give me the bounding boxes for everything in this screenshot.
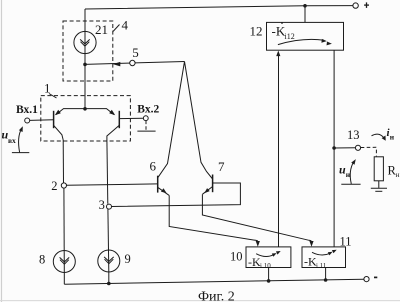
wire source 9 to bottom rail	[108, 272, 110, 284]
wire: triangle left leg (to collector Q6)	[158, 62, 185, 178]
wire: VT2 base to Bx.2	[119, 117, 143, 119]
node 3 terminal circle	[107, 204, 112, 209]
node: diff pair common emitter junction	[83, 107, 87, 111]
block 10 box	[246, 247, 291, 268]
transistor VT1 (left PNP of pair): emitter from common node	[56, 109, 85, 115]
node 2 terminal circle	[61, 183, 66, 188]
arrow into block 11	[309, 241, 313, 247]
wire: triangle right leg (to collector Q7)	[185, 62, 213, 180]
svg-text:2: 2	[51, 179, 57, 193]
u_vx reference bar	[12, 152, 29, 154]
tick for label 1	[49, 94, 57, 99]
svg-text:вх: вх	[8, 136, 16, 145]
label +	[364, 4, 369, 6]
svg-text:7: 7	[218, 159, 225, 174]
u_vx curved arrow	[19, 129, 22, 153]
svg-text:21: 21	[95, 22, 108, 37]
current source 21 circle	[74, 31, 96, 53]
svg-text:н: н	[390, 133, 395, 142]
svg-text:Вх.1: Вх.1	[16, 104, 38, 116]
wire: top supply rail (+)	[85, 6, 353, 9]
svg-text:8: 8	[39, 253, 45, 267]
wire resistor to ground	[378, 181, 380, 188]
transistor VT2 collector	[107, 125, 119, 140]
ground bar under R_n	[371, 187, 387, 189]
svg-text:i 10: i 10	[260, 262, 271, 270]
dashed box around current source 21 (element 4)	[63, 21, 113, 81]
wire node 3 down to source 9	[107, 209, 110, 272]
svg-text:Фиг. 2: Фиг. 2	[198, 290, 235, 302]
emitter arrow into base bar (PNP)	[55, 110, 61, 115]
current source 9 circle	[98, 250, 120, 272]
tick for label 4	[113, 25, 120, 32]
wire: node 5 horizontal with left arrowhead	[85, 63, 130, 64]
wire: VT1 collector down to node 2	[62, 140, 64, 183]
wire: node 2 to base of Q6	[66, 184, 157, 185]
svg-text:13: 13	[347, 128, 360, 142]
wire: node 5 terminal to triangle apex	[135, 62, 184, 63]
transistor Q6 base bar	[157, 176, 159, 193]
transistor VT1 collector	[54, 125, 64, 140]
wire: block 12 output down through node 13 to block 11	[333, 50, 335, 247]
wire: block 10 output up to block 12 input (arrow up)	[278, 56, 280, 247]
dashed box 1 around differential pair	[41, 96, 131, 141]
block 10 curved arrow	[256, 254, 273, 257]
wire: VT2 collector down to node 3	[106, 140, 109, 204]
svg-text:5: 5	[132, 45, 139, 60]
wire node 13 to output terminal	[334, 147, 355, 149]
transistor VT2 (right PNP of pair): emitter from common node	[85, 109, 114, 115]
wire block 11 bottom to rail	[325, 268, 327, 281]
wire block 10 bottom to rail	[268, 268, 270, 281]
terminal circle minus	[364, 277, 369, 282]
svg-text:10: 10	[230, 250, 243, 264]
terminal Bx.2	[143, 116, 148, 121]
block 11 box	[302, 247, 346, 268]
arrowhead pointing left on node 5 wire	[113, 62, 121, 67]
scan border left edge	[1, 0, 3, 302]
node dot block 11 on rail	[324, 278, 328, 282]
arrow into block 10	[256, 241, 260, 247]
wire: Q6 emitter down then slope to block 10 input	[169, 195, 258, 241]
wire: vertical from top rail through current source 21 to diff pair	[84, 9, 86, 109]
wire: Q7 emitter down then slope to block 11 input	[202, 194, 311, 241]
resistor R_n	[374, 157, 383, 181]
node 13 junction dot	[332, 146, 336, 150]
output terminal circle 13	[355, 145, 360, 150]
svg-text:4: 4	[122, 18, 129, 33]
ground stub below Bx.2	[145, 121, 147, 130]
node dot block 10 on rail	[267, 279, 271, 283]
scan border bottom edge	[0, 300, 400, 302]
ground bar below Bx.2	[137, 130, 155, 132]
terminal: + supply	[353, 3, 358, 8]
block 11 curved arrow	[312, 252, 330, 255]
transistor VT2 base bar	[118, 111, 120, 128]
wire node 2 down to source 8	[63, 188, 65, 273]
svg-text:Вх.2: Вх.2	[137, 104, 159, 116]
terminal Bx.1	[25, 118, 30, 123]
transistor Q7 emitter with arrow (mirrored)	[203, 187, 213, 195]
svg-text:6: 6	[150, 159, 157, 174]
transistor VT1 base bar	[53, 111, 55, 128]
node dot source 9 on rail	[107, 282, 111, 286]
label minus	[374, 276, 377, 278]
block 12 box	[267, 22, 344, 50]
transistor Q6 emitter with arrow	[158, 187, 169, 195]
svg-text:i12: i12	[285, 32, 295, 41]
emitter arrow into base bar (PNP)	[109, 110, 115, 115]
svg-text:12: 12	[250, 24, 263, 39]
terminal circle node 5	[130, 60, 135, 65]
wire source 8 to bottom rail	[63, 272, 65, 284]
transistor Q7 base bar	[212, 175, 214, 193]
svg-text:11: 11	[340, 235, 352, 249]
bottom supply rail (-)	[64, 279, 364, 284]
current source 8 circle	[53, 251, 75, 273]
node: junction top rail to block 12	[303, 4, 307, 8]
svg-text:н: н	[396, 170, 400, 179]
dashed wire from terminal to load	[361, 147, 377, 156]
wire: block 12 top to rail	[304, 6, 306, 23]
current source 21 arrow chevrons	[80, 39, 90, 44]
block 12 curved arrow	[278, 39, 324, 44]
node 5 junction dot	[83, 63, 87, 67]
svg-text:9: 9	[125, 252, 131, 266]
wire: node 3 to base loop of Q7	[112, 183, 241, 207]
svg-text:3: 3	[99, 198, 105, 212]
svg-text:1: 1	[44, 80, 51, 95]
wire: Bx.1 to VT1 base	[30, 119, 54, 122]
